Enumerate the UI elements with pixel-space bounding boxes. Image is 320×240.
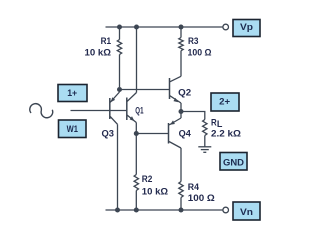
label box GND — [220, 153, 247, 171]
node junction dot Q3 collector/bottom rail — [115, 208, 120, 213]
resistor RL 2.2 kOhm — [203, 120, 207, 147]
node junction dot R4/bottom rail — [179, 208, 184, 213]
node junction dot R2/bottom rail — [134, 208, 139, 213]
svg-text:100 Ω: 100 Ω — [188, 47, 212, 57]
label box 2+ — [211, 93, 239, 111]
svg-text:2.2 kΩ: 2.2 kΩ — [211, 129, 241, 139]
terminal Vn open circle — [223, 207, 229, 213]
svg-text:R2: R2 — [142, 174, 153, 184]
node junction dot Q3 emitter / R1 / Q2 base — [117, 87, 122, 92]
svg-text:Q4: Q4 — [179, 129, 191, 139]
svg-text:Q3: Q3 — [102, 128, 115, 138]
svg-text:10 kΩ: 10 kΩ — [85, 48, 112, 58]
source W1 sine symbol — [30, 104, 53, 118]
wire Q2 base — [120, 89, 170, 91]
transistor Q4 (PNP) — [169, 112, 182, 182]
svg-text:Q2: Q2 — [178, 87, 191, 97]
label box Vn — [233, 202, 260, 220]
svg-text:Q1: Q1 — [135, 106, 143, 116]
node junction dot R3/top rail — [179, 25, 184, 30]
svg-text:GND: GND — [223, 157, 244, 168]
node junction dot Q1 emitter / R2 / Q4 base — [134, 131, 139, 136]
svg-text:Vn: Vn — [240, 207, 253, 218]
svg-text:W1: W1 — [67, 124, 79, 135]
svg-text:1+: 1+ — [67, 88, 77, 99]
label box 1+ — [58, 85, 87, 102]
label box Vp — [233, 20, 260, 37]
wire output node to RL — [181, 112, 205, 120]
terminal Vp open circle — [223, 24, 229, 30]
resistor R2 10 kOhm — [134, 134, 138, 211]
resistor R4 100 Ohm — [179, 182, 183, 211]
svg-text:Vp: Vp — [240, 22, 253, 33]
transistor Q2 (NPN) — [170, 76, 182, 111]
svg-text:100 Ω: 100 Ω — [188, 193, 215, 203]
transistor Q3 (PNP) — [110, 90, 120, 211]
wire bottom rail Vn — [106, 209, 223, 211]
label box W1 — [59, 120, 87, 138]
wire top rail Vp — [106, 26, 223, 28]
node junction dot Q1 collector/top rail — [134, 25, 139, 30]
svg-text:R3: R3 — [188, 36, 199, 46]
node junction dot output (Q2 emitter / Q4 emitter / RL) — [179, 109, 184, 114]
svg-text:L: L — [217, 119, 223, 129]
wire input W1 to Q3/Q1 bases — [71, 110, 127, 112]
transistor Q1 (NPN) — [127, 27, 137, 134]
wire Q4 base — [136, 133, 168, 135]
svg-text:R1: R1 — [101, 36, 112, 46]
svg-text:2+: 2+ — [219, 96, 230, 107]
resistor R1 10 kOhm — [117, 27, 121, 87]
resistor R3 100 Ohm — [179, 27, 183, 76]
ground symbol — [198, 147, 211, 153]
svg-text:R4: R4 — [188, 182, 199, 192]
node junction dot R1/top rail — [117, 25, 122, 30]
svg-text:10 kΩ: 10 kΩ — [142, 187, 168, 197]
